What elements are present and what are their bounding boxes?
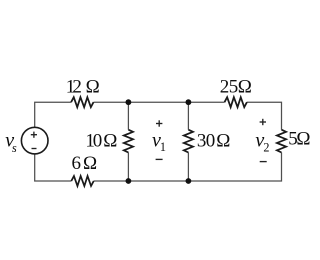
svg-text:Ω: Ω [86, 76, 100, 97]
svg-text:Ω: Ω [216, 131, 230, 152]
svg-text:2: 2 [72, 76, 82, 97]
svg-text:2: 2 [263, 140, 269, 154]
svg-text:0: 0 [206, 131, 216, 152]
svg-text:Ω: Ω [83, 153, 97, 174]
svg-text:1: 1 [160, 140, 166, 154]
svg-text:Ω: Ω [103, 131, 117, 152]
svg-text:Ω: Ω [296, 128, 310, 149]
svg-text:0: 0 [93, 131, 103, 152]
svg-text:6: 6 [72, 153, 82, 174]
svg-text:Ω: Ω [238, 76, 252, 97]
svg-text:s: s [12, 141, 17, 155]
